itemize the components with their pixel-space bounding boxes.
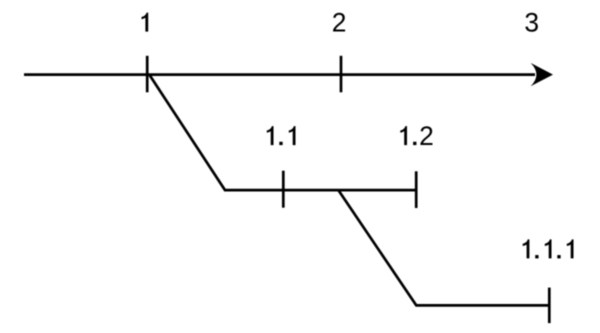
label 1.1 (267, 126, 296, 145)
wire branch 1.x (diagonal + horizontal) (150, 75, 416, 190)
node tick 1 (146, 56, 149, 93)
label 1 (142, 13, 149, 32)
svg-text:2: 2 (332, 8, 347, 38)
wire branch 1.1.x (diagonal + horizontal) (339, 191, 550, 306)
arrowhead of main timeline (531, 63, 553, 86)
svg-text:3: 3 (524, 7, 539, 37)
label 1.1.1 (523, 239, 574, 258)
svg-text:2: 2 (419, 121, 434, 151)
wire main timeline (24, 73, 535, 76)
node tick 2 (340, 56, 343, 93)
node tick 1.1 (282, 171, 285, 208)
label 1.2 (400, 121, 433, 151)
node tick 1.2 (end) (415, 171, 418, 208)
node tick 1.1.1 (end) (548, 288, 551, 324)
